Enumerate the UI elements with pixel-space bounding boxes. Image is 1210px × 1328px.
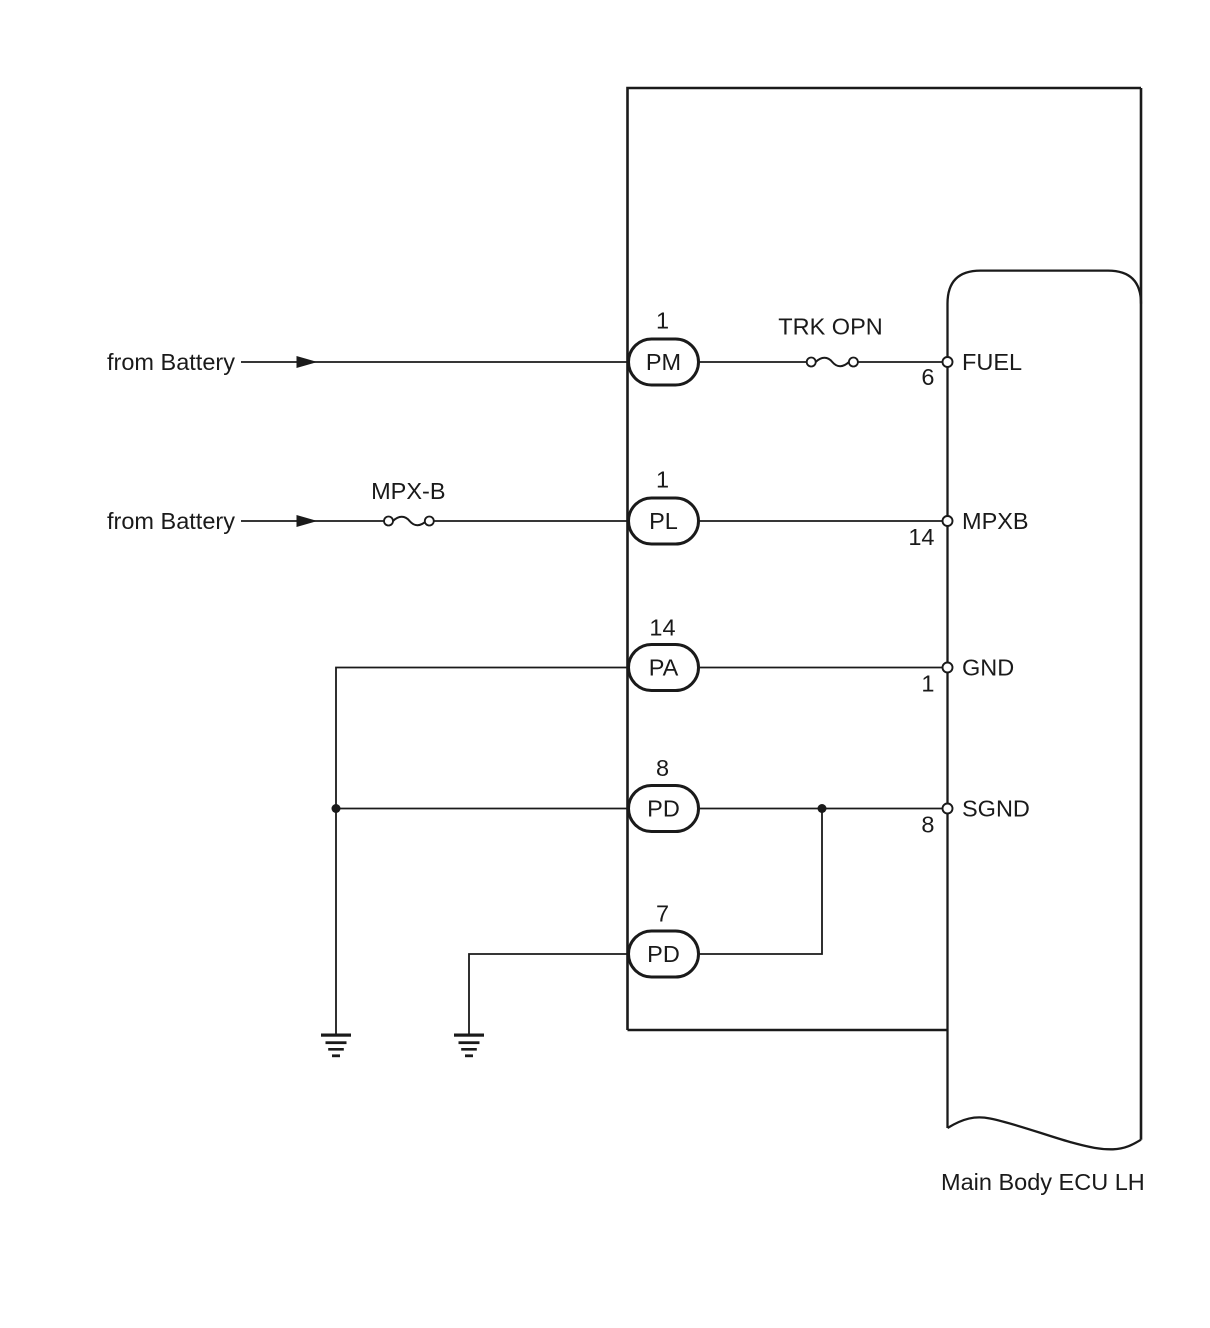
pin MPXB terminal circle: [943, 516, 953, 526]
wire from Battery to fuse MPX-B: [241, 520, 384, 522]
svg-text:8: 8: [921, 812, 934, 838]
wire fuse MPX-B to PL: [434, 520, 630, 522]
connector PL: [629, 498, 699, 544]
svg-text:1: 1: [656, 308, 669, 334]
arrow on battery wire 1: [297, 356, 318, 368]
connector block outline: [628, 88, 1142, 1030]
connector PM: [629, 339, 699, 385]
wire PM to fuse TRK OPN: [697, 361, 807, 363]
wire PL to pin MPXB: [697, 520, 948, 522]
junction node on SGND wire: [818, 804, 827, 813]
junction on ground riser: [332, 804, 341, 813]
svg-text:PD: PD: [647, 941, 680, 967]
ground G1: [321, 1034, 351, 1058]
svg-text:GND: GND: [962, 655, 1014, 681]
svg-text:7: 7: [656, 901, 669, 927]
pin SGND terminal circle: [943, 804, 953, 814]
svg-text:MPXB: MPXB: [962, 508, 1029, 534]
ECU U1 outline (Main Body ECU LH): [948, 271, 1142, 1128]
svg-text:1: 1: [921, 671, 934, 697]
pin GND terminal circle: [943, 663, 953, 673]
wire PD to pin SGND: [697, 808, 948, 810]
svg-text:MPX-B: MPX-B: [371, 478, 445, 504]
svg-text:1: 1: [656, 467, 669, 493]
right edge of connector block / ECU: [1140, 88, 1143, 1140]
fuse MPX-B terminal circles: [384, 517, 393, 526]
svg-text:PA: PA: [649, 655, 679, 681]
svg-text:from Battery: from Battery: [107, 349, 235, 375]
ECU torn wavy bottom edge: [948, 1117, 1142, 1149]
svg-text:PL: PL: [649, 508, 678, 534]
svg-text:Main Body ECU LH: Main Body ECU LH: [941, 1169, 1145, 1195]
wire from Battery to PM: [241, 361, 630, 363]
svg-text:TRK OPN: TRK OPN: [778, 313, 882, 339]
svg-text:6: 6: [921, 364, 934, 390]
connector PD (pin 8): [629, 786, 699, 832]
svg-text:FUEL: FUEL: [962, 349, 1022, 375]
wire fuse to pin FUEL: [858, 361, 948, 363]
ground G2: [454, 1034, 484, 1058]
fuse TRK OPN terminal circles: [807, 358, 816, 367]
fuse MPX-B wavy element: [393, 517, 426, 525]
svg-text:PD: PD: [647, 796, 680, 822]
connector PA: [629, 645, 699, 691]
wire left riser to PD (pin 8): [336, 808, 630, 810]
svg-text:8: 8: [656, 755, 669, 781]
wire PD pin7 up to SGND junction: [697, 809, 822, 955]
fuse TRK OPN wavy element: [816, 358, 849, 366]
pin FUEL terminal circle: [943, 357, 953, 367]
svg-text:14: 14: [649, 615, 675, 641]
wire ground riser 2 to PD (pin 7): [469, 954, 630, 1034]
wire PA to pin GND: [697, 667, 948, 669]
arrow on battery wire 2: [297, 515, 318, 527]
wire ground riser to PA: [336, 668, 630, 1034]
svg-text:SGND: SGND: [962, 796, 1030, 822]
svg-text:14: 14: [908, 524, 934, 550]
svg-text:from Battery: from Battery: [107, 508, 235, 534]
svg-text:PM: PM: [646, 349, 681, 375]
connector PD (pin 7): [629, 931, 699, 977]
